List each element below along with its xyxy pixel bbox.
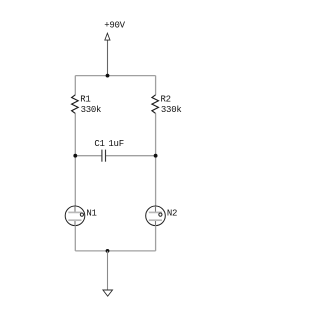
wire ground stem: [107, 251, 109, 290]
wire left lower: [74, 226, 76, 251]
wire bottom horizontal: [75, 250, 155, 252]
wire left middle: [74, 113, 76, 206]
wire left upper: [74, 76, 76, 95]
svg-text:R1: R1: [80, 95, 90, 105]
wire right lower: [155, 226, 157, 251]
wire power stem: [107, 41, 109, 76]
wire right upper: [155, 76, 157, 95]
power arrow: [105, 33, 110, 40]
svg-text:N1: N1: [86, 208, 96, 218]
svg-text:N2: N2: [167, 208, 177, 218]
svg-text:1uF: 1uF: [108, 139, 123, 149]
svg-text:330k: 330k: [161, 105, 182, 115]
svg-text:+90V: +90V: [104, 21, 125, 31]
neon lamp N2: [146, 206, 178, 226]
node top junction: [106, 74, 110, 78]
wire right middle: [155, 113, 157, 206]
capacitor C1: [75, 139, 155, 162]
resistor R1: [72, 95, 102, 115]
resistor R2: [152, 95, 182, 115]
svg-text:330k: 330k: [81, 105, 102, 115]
ground: [103, 290, 113, 296]
neon lamp N1: [65, 206, 97, 226]
wire top horizontal: [75, 75, 155, 77]
svg-text:C1: C1: [94, 139, 104, 149]
node bottom junction: [106, 249, 110, 253]
node capacitor left: [73, 154, 77, 158]
svg-text:R2: R2: [161, 95, 171, 105]
node capacitor right: [154, 154, 158, 158]
